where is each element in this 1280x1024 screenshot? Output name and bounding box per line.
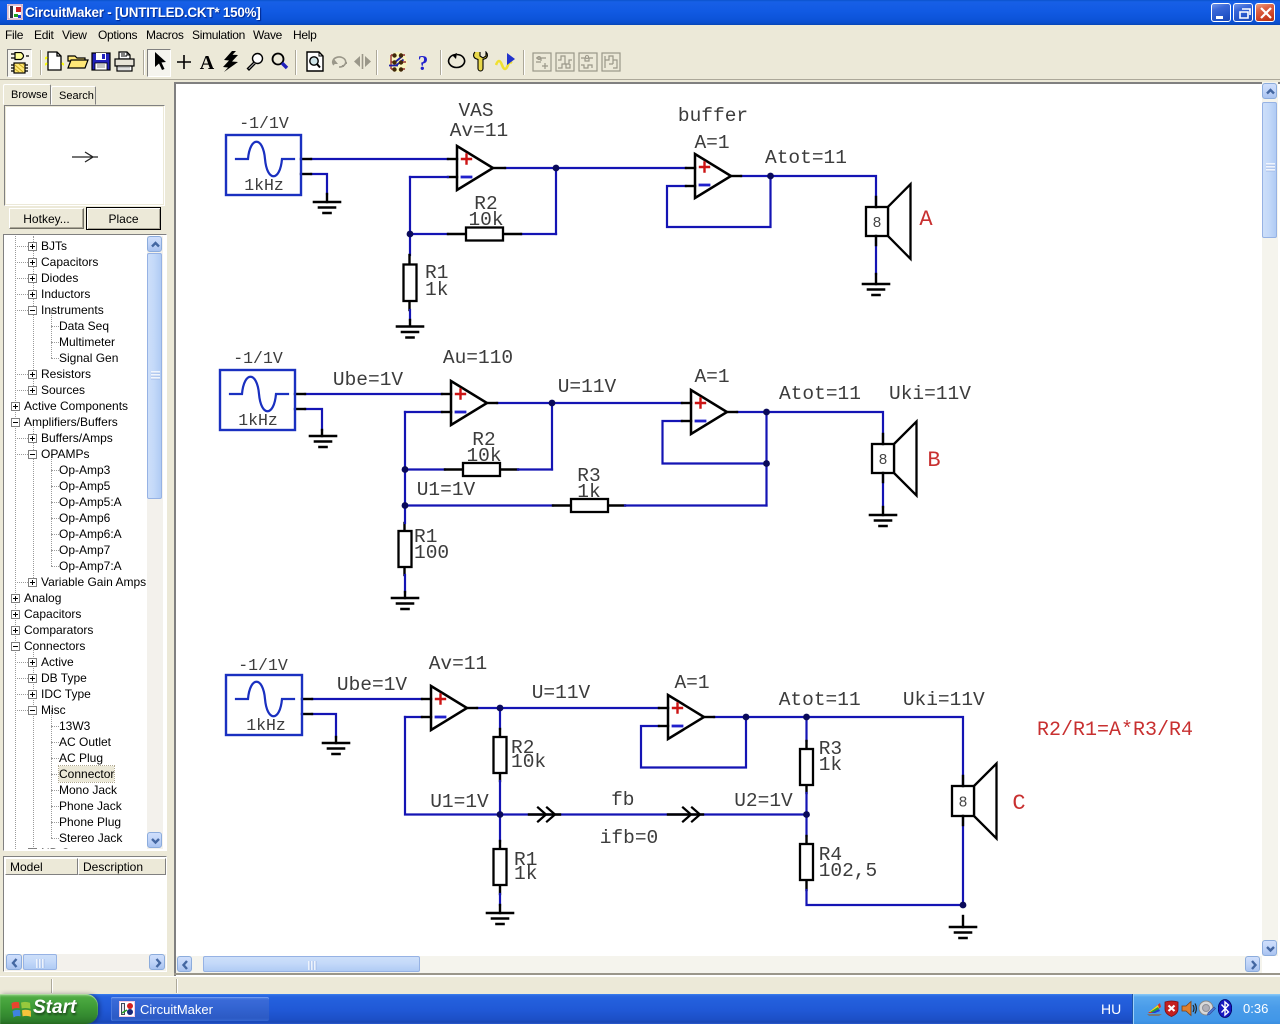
svg-text:U=11V: U=11V	[532, 682, 591, 704]
svg-text:100: 100	[414, 542, 449, 564]
svg-text:1kHz: 1kHz	[246, 716, 286, 735]
svg-text:Av=11: Av=11	[450, 120, 509, 142]
svg-text:VAS: VAS	[458, 100, 493, 122]
svg-text:-1/1V: -1/1V	[233, 349, 283, 368]
svg-text:Au=110: Au=110	[443, 347, 513, 369]
svg-text:ifb=0: ifb=0	[600, 827, 659, 849]
svg-text:R2/R1=A*R3/R4: R2/R1=A*R3/R4	[1037, 719, 1193, 742]
svg-text:Uki=11V: Uki=11V	[903, 689, 985, 711]
svg-text:U2=1V: U2=1V	[734, 790, 793, 812]
svg-text:Atot=11: Atot=11	[779, 689, 861, 711]
svg-text:U1=1V: U1=1V	[417, 479, 476, 501]
svg-text:10k: 10k	[468, 209, 503, 231]
svg-text:U=11V: U=11V	[558, 376, 617, 398]
svg-text:8: 8	[872, 215, 881, 232]
svg-text:A=1: A=1	[674, 672, 709, 694]
svg-text:-1/1V: -1/1V	[238, 656, 288, 675]
svg-text:1k: 1k	[425, 279, 448, 301]
svg-text:1k: 1k	[577, 481, 600, 503]
svg-text:Ube=1V: Ube=1V	[337, 674, 408, 696]
svg-text:A=1: A=1	[694, 366, 729, 388]
svg-text:Ube=1V: Ube=1V	[333, 369, 404, 391]
svg-text:8: 8	[958, 795, 967, 812]
svg-text:1k: 1k	[819, 754, 842, 776]
svg-text:Uki=11V: Uki=11V	[889, 383, 971, 405]
svg-text:Atot=11: Atot=11	[779, 383, 861, 405]
svg-text:Av=11: Av=11	[429, 653, 488, 675]
svg-text:-1/1V: -1/1V	[239, 114, 289, 133]
svg-text:102,5: 102,5	[819, 860, 878, 882]
svg-text:A: A	[919, 207, 933, 232]
svg-text:C: C	[1012, 791, 1025, 816]
svg-text:10k: 10k	[466, 445, 501, 467]
svg-text:A=1: A=1	[694, 132, 729, 154]
svg-text:1kHz: 1kHz	[238, 411, 278, 430]
svg-text:buffer: buffer	[678, 105, 748, 127]
svg-text:fb: fb	[611, 789, 634, 811]
svg-text:B: B	[927, 448, 940, 473]
svg-text:10k: 10k	[511, 751, 546, 773]
svg-text:Atot=11: Atot=11	[765, 147, 847, 169]
svg-text:1k: 1k	[514, 863, 537, 885]
svg-text:U1=1V: U1=1V	[430, 791, 489, 813]
svg-text:8: 8	[878, 452, 887, 469]
svg-text:1kHz: 1kHz	[244, 176, 284, 195]
